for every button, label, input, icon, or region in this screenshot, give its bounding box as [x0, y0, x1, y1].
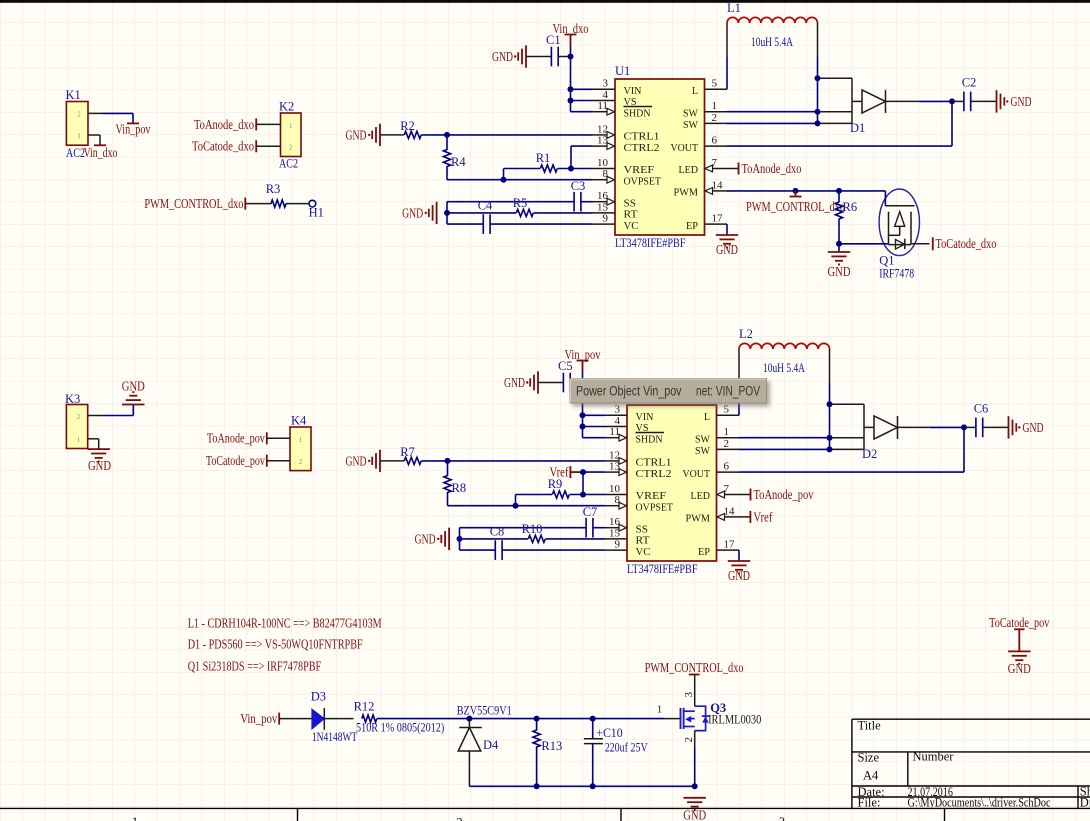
svg-text:GND: GND	[728, 568, 750, 583]
svg-text:3: 3	[603, 78, 609, 90]
sheet border bottom line	[0, 807, 1090, 809]
wire top rail	[469, 718, 536, 720]
svg-text:VC: VC	[636, 546, 651, 558]
svg-text:17: 17	[724, 539, 736, 551]
svg-text:K1: K1	[66, 88, 81, 102]
capacitor C7 on SS line	[460, 527, 587, 529]
capacitor C4 on VC line	[447, 223, 483, 225]
op-amp IC U2 LT3478IFE#PBF	[627, 405, 717, 561]
svg-text:10: 10	[597, 157, 609, 169]
pin 17 EP of U2	[717, 549, 740, 551]
svg-text:Q1 Si2318DS ==> IRF7478PBF: Q1 Si2318DS ==> IRF7478PBF	[188, 659, 322, 674]
svg-text:GND: GND	[683, 808, 706, 821]
svg-text:GND: GND	[504, 375, 525, 390]
svg-text:8: 8	[603, 168, 609, 180]
transistor Q1 IRF7478	[879, 189, 919, 256]
svg-text:OVPSET: OVPSET	[624, 175, 662, 187]
transistor Q3 IRLML0030	[694, 675, 696, 707]
junction CTRL1	[444, 132, 450, 138]
svg-text:10: 10	[609, 483, 621, 495]
svg-text:5: 5	[712, 78, 718, 90]
wire C1 to VIN node	[558, 56, 570, 58]
svg-text:220uf 25V: 220uf 25V	[605, 741, 648, 755]
svg-text:Vref: Vref	[550, 465, 569, 480]
capacitor C6	[964, 426, 976, 428]
pin 10 VREF of U2	[605, 494, 628, 496]
svg-text:G:\MyDocuments\..\driver.SchDo: G:\MyDocuments\..\driver.SchDoc	[908, 796, 1051, 810]
pin 1 SW of U1	[705, 111, 728, 113]
svg-text:LED: LED	[691, 490, 711, 502]
svg-text:4: 4	[603, 89, 609, 101]
port Vin_pov at D3	[278, 713, 280, 725]
pin 11 SHDN of U1	[593, 111, 608, 113]
svg-text:R5: R5	[513, 196, 528, 210]
svg-text:H1: H1	[309, 206, 324, 220]
svg-text:C2: C2	[962, 76, 977, 90]
svg-text:GND: GND	[1011, 94, 1032, 109]
svg-text:1: 1	[299, 436, 303, 444]
port PWM_CONTROL_dxo at R3	[244, 198, 246, 210]
svg-text:C5: C5	[558, 359, 573, 373]
port ToAnode_pov	[266, 432, 268, 444]
connector K2	[281, 113, 302, 157]
svg-text:11: 11	[609, 426, 620, 438]
junction at output cap	[949, 98, 955, 104]
wire K1 pin2 to Vin_pov	[88, 112, 103, 114]
wire D2 to C6	[898, 426, 932, 428]
svg-text:R7: R7	[400, 445, 415, 459]
port ToCatode_pov	[266, 455, 268, 467]
ground GND at C4	[436, 202, 438, 224]
svg-text:3: 3	[615, 404, 621, 416]
svg-text:IRF7478: IRF7478	[879, 267, 914, 281]
ground GND right of C2	[971, 100, 997, 102]
wire GND to C5	[538, 382, 563, 384]
svg-text:R8: R8	[452, 481, 467, 495]
wire D1 to C2	[886, 100, 920, 102]
svg-text:SHDN: SHDN	[636, 433, 663, 445]
junction CTRL1	[445, 458, 451, 464]
svg-text:GND: GND	[716, 242, 738, 257]
svg-text:R4: R4	[451, 155, 466, 169]
wire L1 right lead	[817, 23, 819, 57]
junctions at SW node	[815, 75, 821, 81]
port ToAnode_dxo	[727, 168, 739, 170]
svg-text:R13: R13	[541, 739, 562, 753]
port ToCatode_dxo	[255, 140, 257, 152]
ground GND at R2	[379, 124, 381, 146]
diode D3 1N4148WT	[312, 709, 324, 729]
svg-text:VIN: VIN	[624, 85, 642, 97]
svg-text:3: 3	[779, 815, 785, 821]
pin 13 CTRL2 of U2	[605, 471, 620, 473]
svg-text:GND: GND	[346, 454, 367, 469]
capacitor C10 220uf	[592, 719, 594, 739]
svg-text:GND: GND	[88, 458, 111, 473]
svg-text:ToCatode_pov: ToCatode_pov	[206, 453, 265, 468]
wire L2 right lead	[829, 349, 831, 383]
inductor L1	[726, 57, 728, 89]
wire PWM to Q1 gate	[727, 190, 885, 192]
wire VIN vertical rail	[570, 46, 572, 112]
resistor R3	[271, 200, 286, 207]
pin 1 SW of U2	[717, 437, 740, 439]
svg-text:A4: A4	[863, 769, 879, 783]
svg-text:16: 16	[609, 516, 621, 528]
svg-text:14: 14	[724, 505, 736, 517]
wire Vin_pov to D3	[279, 718, 312, 720]
svg-text:C3: C3	[571, 179, 586, 193]
svg-text:C4: C4	[478, 199, 493, 213]
pin 3 VIN of U1	[593, 88, 616, 90]
svg-text:Vref: Vref	[753, 509, 772, 524]
wire riser OVPSET to VREF	[515, 495, 517, 506]
resistor R6	[838, 191, 840, 203]
port ToAnode_pov	[739, 494, 751, 496]
ground GND right of C6	[983, 426, 1009, 428]
svg-text:SHDN: SHDN	[624, 107, 651, 119]
pin 4 VS of U2	[605, 426, 628, 428]
junction D4	[466, 716, 472, 722]
svg-text:GND: GND	[415, 532, 436, 547]
svg-text:8: 8	[615, 494, 621, 506]
svg-text:13: 13	[597, 135, 609, 147]
svg-text:1: 1	[132, 815, 138, 821]
svg-text:510R 1% 0805(2012): 510R 1% 0805(2012)	[356, 721, 444, 735]
power port Vref at CTRL2	[569, 466, 571, 478]
wire SS/RT/VC riser	[446, 202, 448, 224]
pin 2 SW of U2	[717, 448, 740, 450]
svg-text:9: 9	[615, 539, 621, 551]
svg-text:CTRL1: CTRL1	[636, 457, 672, 469]
wire GND to C1	[526, 56, 551, 58]
wire CTRL2 to VREF node	[571, 145, 593, 147]
svg-text:10uH 5.4A: 10uH 5.4A	[751, 35, 793, 49]
sheet border top bar	[0, 0, 1090, 3]
wire C5 to VIN node	[570, 382, 582, 384]
ground GND at EP pin of U2	[738, 550, 740, 561]
svg-text:Vin_pov: Vin_pov	[116, 122, 151, 137]
svg-text:Drawn By:: Drawn By:	[1080, 796, 1090, 810]
svg-text:AC2: AC2	[279, 157, 298, 171]
pin 16 SS of U2	[605, 527, 620, 529]
junction VREF	[568, 166, 574, 172]
junction at VIN	[580, 380, 586, 386]
junction C10	[590, 716, 596, 722]
ground GND at R7	[379, 450, 381, 472]
svg-text:R12: R12	[354, 700, 375, 714]
junction RT	[457, 536, 463, 542]
svg-text:6: 6	[712, 135, 718, 147]
svg-text:C7: C7	[583, 505, 598, 519]
svg-text:R2: R2	[400, 119, 415, 133]
wire VIN vertical rail	[582, 372, 584, 438]
power port Vin_pov	[577, 360, 589, 362]
op-amp IC U1 LT3478IFE#PBF	[615, 79, 705, 235]
svg-text:C1: C1	[546, 33, 561, 47]
resistor R7	[380, 460, 404, 462]
svg-text:EP: EP	[686, 220, 698, 232]
svg-text:7: 7	[712, 157, 718, 169]
svg-text:PWM: PWM	[686, 513, 711, 525]
junction OVPSET	[501, 177, 507, 183]
pin 12 CTRL1 of U1	[593, 134, 608, 136]
svg-text:17: 17	[712, 213, 724, 225]
junction Q3 source	[692, 783, 698, 789]
ground GND below K3	[88, 448, 110, 450]
svg-text:4: 4	[615, 415, 621, 427]
svg-text:SW: SW	[695, 433, 711, 445]
svg-text:L1 - CDRH104R-100NC ==> B82477: L1 - CDRH104R-100NC ==> B82477G4103M	[188, 616, 382, 631]
svg-text:LT3478IFE#PBF: LT3478IFE#PBF	[627, 562, 698, 576]
svg-text:6: 6	[724, 461, 730, 473]
resistor R5 on RT line	[447, 212, 516, 214]
testpoint H1	[309, 200, 316, 207]
diode D1	[852, 100, 862, 102]
svg-text:3: 3	[683, 692, 695, 698]
ground GND below R6	[838, 244, 840, 252]
sheet zone tick marks	[297, 808, 299, 821]
wire riser OVPSET to VREF	[503, 169, 505, 180]
svg-text:PWM_CONTROL_dxo: PWM_CONTROL_dxo	[144, 196, 243, 211]
pin 13 CTRL2 of U1	[593, 145, 608, 147]
wire SW connection box	[830, 403, 865, 405]
title block	[852, 718, 1090, 720]
svg-text:2: 2	[683, 737, 695, 743]
svg-text:1N4148WT: 1N4148WT	[312, 730, 358, 744]
connector K3	[66, 405, 87, 449]
svg-text:L: L	[692, 85, 698, 97]
svg-text:R10: R10	[522, 522, 543, 536]
svg-text:C8: C8	[490, 525, 505, 539]
wire top rail to Q3 gate	[593, 718, 664, 720]
svg-text:K4: K4	[291, 414, 307, 428]
svg-text:12: 12	[609, 449, 620, 461]
svg-text:2: 2	[289, 144, 293, 152]
svg-text:LT3478IFE#PBF: LT3478IFE#PBF	[615, 236, 686, 250]
pin 5 L of U2	[717, 414, 740, 416]
pin 5 L of U1	[705, 88, 728, 90]
wire R12 to D4 node	[377, 718, 469, 720]
pin 8 OVPSET of U1	[593, 179, 608, 181]
svg-text:L: L	[704, 411, 710, 423]
resistor R4	[446, 135, 448, 150]
connector K4	[290, 427, 311, 471]
resistor R13	[536, 719, 538, 731]
ground GND below Q3	[684, 797, 706, 799]
svg-text:U1: U1	[615, 64, 630, 78]
tooltip Power Object Vin_pov	[570, 379, 767, 403]
wire OVPSET row	[447, 179, 593, 181]
pin 12 CTRL1 of U2	[605, 460, 620, 462]
ground GND left of C1	[525, 45, 527, 67]
svg-text:VOUT: VOUT	[683, 468, 711, 480]
pin 15 RT of U2	[605, 538, 628, 540]
junction at VIN	[568, 54, 574, 60]
resistor R8	[447, 461, 449, 476]
svg-text:IRLML0030: IRLML0030	[708, 712, 761, 727]
svg-text:ToCatode_dxo: ToCatode_dxo	[936, 236, 997, 251]
svg-text:CTRL2: CTRL2	[624, 142, 660, 154]
wire R3 to H1	[286, 203, 309, 205]
wire R2 to CTRL1	[421, 134, 592, 136]
svg-text:1: 1	[712, 100, 718, 112]
power port Vin_dxo	[565, 34, 577, 36]
wire OVPSET row	[448, 505, 605, 507]
svg-text:GND: GND	[402, 206, 423, 221]
port PWM_CONTROL_dxo	[795, 191, 797, 197]
pin 15 RT of U1	[593, 212, 616, 214]
wire R7 to CTRL1	[421, 460, 604, 462]
resistor R2	[380, 134, 404, 136]
svg-text:LED: LED	[679, 164, 699, 176]
svg-text:5: 5	[724, 404, 730, 416]
ground GND at EP pin of U1	[726, 224, 728, 235]
svg-text:L1: L1	[727, 1, 741, 15]
svg-text:ToAnode_dxo: ToAnode_dxo	[194, 117, 254, 132]
svg-text:File:: File:	[858, 796, 881, 810]
junction OVPSET	[513, 503, 519, 509]
ground GND at ToCatode_pov	[1008, 650, 1030, 652]
svg-text:D4: D4	[483, 738, 499, 752]
wire K3 pin2 to GND	[88, 415, 103, 417]
pin 8 OVPSET of U2	[605, 505, 620, 507]
wire top rail 2	[537, 718, 593, 720]
svg-text:C6: C6	[974, 402, 989, 416]
svg-text:BZV55C9V1: BZV55C9V1	[457, 703, 512, 717]
power port Vin_pov at K1	[127, 122, 139, 124]
svg-text:R6: R6	[843, 200, 858, 214]
junction PWM port	[793, 188, 799, 194]
svg-text:16: 16	[597, 190, 609, 202]
svg-text:2: 2	[456, 816, 462, 821]
svg-text:9: 9	[603, 213, 609, 225]
svg-text:CTRL1: CTRL1	[624, 131, 660, 143]
svg-text:1: 1	[77, 436, 81, 444]
wire K3 pin1 to GND	[88, 438, 99, 440]
svg-text:OVPSET: OVPSET	[636, 501, 674, 513]
svg-text:net: VIN_POV: net: VIN_POV	[696, 384, 760, 399]
connector K1	[66, 102, 88, 146]
svg-text:14: 14	[712, 179, 724, 191]
svg-text:R1: R1	[536, 151, 551, 165]
svg-text:GND: GND	[492, 49, 513, 64]
svg-text:D3: D3	[311, 690, 326, 704]
svg-text:Vin_dxo: Vin_dxo	[84, 145, 118, 160]
svg-text:2: 2	[299, 458, 303, 466]
junction R13	[534, 716, 540, 722]
junction RT	[444, 210, 450, 216]
svg-text:7: 7	[724, 483, 730, 495]
capacitor C2	[952, 100, 964, 102]
wire SW connection box	[818, 77, 853, 79]
svg-text:VOUT: VOUT	[671, 142, 699, 154]
wire VOUT feedback	[951, 101, 953, 146]
junction C10 bottom	[590, 783, 596, 789]
svg-text:D1 - PDS560 ==> VS-50WQ10FNTRP: D1 - PDS560 ==> VS-50WQ10FNTRPBF	[188, 637, 363, 652]
svg-text:+C10: +C10	[596, 726, 622, 740]
svg-text:SW: SW	[683, 119, 699, 131]
wire R6 node to Q1	[839, 243, 889, 245]
svg-text:ToAnode_pov: ToAnode_pov	[754, 487, 814, 502]
svg-text:GND: GND	[1008, 661, 1031, 676]
pin 11 SHDN of U2	[605, 437, 620, 439]
svg-text:D1: D1	[850, 121, 865, 135]
wire D3 to R12	[324, 718, 353, 720]
svg-text:ToAnode_pov: ToAnode_pov	[207, 431, 265, 446]
wire K1 pin1 to Vin_dxo	[88, 134, 100, 136]
svg-text:CTRL2: CTRL2	[636, 468, 672, 480]
svg-text:10uH 5.4A: 10uH 5.4A	[763, 361, 805, 375]
svg-text:Title: Title	[858, 719, 882, 733]
junction VREF	[580, 492, 586, 498]
pin 2 SW of U1	[705, 122, 728, 124]
pin 6 VOUT of U2	[717, 471, 740, 473]
svg-text:1: 1	[657, 704, 663, 716]
port ToCatode_dxo	[911, 243, 930, 245]
pin 16 SS of U1	[593, 201, 608, 203]
svg-text:K2: K2	[279, 100, 294, 114]
svg-text:Number: Number	[913, 750, 955, 764]
pin 7 LED of U1	[713, 168, 728, 170]
capacitor C5	[562, 373, 564, 393]
svg-text:PWM_CONTROL_dxo: PWM_CONTROL_dxo	[645, 660, 744, 675]
svg-text:12: 12	[597, 123, 608, 135]
pin 3 VIN of U2	[605, 414, 628, 416]
pin 10 VREF of U1	[593, 168, 616, 170]
svg-text:1: 1	[289, 122, 293, 130]
svg-text:EP: EP	[698, 546, 710, 558]
svg-text:ToCatode_pov: ToCatode_pov	[989, 615, 1050, 630]
svg-text:15: 15	[597, 201, 609, 213]
svg-text:RT: RT	[636, 535, 650, 547]
port ToAnode_dxo	[255, 118, 257, 130]
zener diode D4 BZV55C9V1	[468, 719, 470, 728]
resistor R1	[504, 168, 541, 170]
ground GND left of C5	[537, 371, 539, 393]
svg-text:L2: L2	[739, 327, 753, 341]
svg-text:GND: GND	[828, 264, 851, 279]
pin 9 VC of U2	[605, 549, 628, 551]
svg-text:15: 15	[609, 527, 621, 539]
svg-text:VC: VC	[624, 220, 639, 232]
svg-text:ToCatode_dxo: ToCatode_dxo	[192, 139, 254, 154]
port Vref at PWM pin	[739, 516, 750, 518]
svg-text:PWM: PWM	[674, 187, 699, 199]
svg-text:1: 1	[77, 132, 81, 140]
ground GND at C8	[448, 528, 450, 550]
junctions at SW node	[827, 401, 833, 407]
pin 17 EP of U1	[705, 223, 728, 225]
capacitor C1	[550, 47, 552, 67]
resistor R9	[516, 494, 553, 496]
svg-text:Vin_pov: Vin_pov	[240, 711, 277, 726]
svg-text:1: 1	[724, 426, 730, 438]
resistor R12	[362, 715, 377, 722]
inductor L2	[738, 383, 740, 415]
bottom rail wire	[469, 785, 694, 787]
pin 14 PWM of U1	[713, 190, 728, 192]
svg-text:RT: RT	[624, 209, 638, 221]
svg-text:13: 13	[609, 461, 621, 473]
svg-text:PWM_CONTROL_dxo: PWM_CONTROL_dxo	[746, 199, 845, 214]
pin 14 PWM of U2	[725, 516, 740, 518]
pin 4 VS of U1	[593, 100, 616, 102]
svg-text:Power Object Vin_pov: Power Object Vin_pov	[576, 384, 682, 399]
capacitor C8 on VC line	[460, 549, 496, 551]
pin 9 VC of U1	[593, 223, 616, 225]
svg-text:GND: GND	[1023, 420, 1044, 435]
